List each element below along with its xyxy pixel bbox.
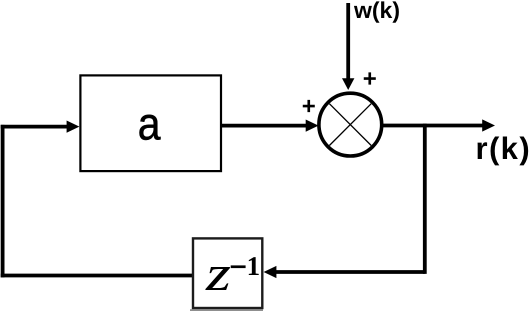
wire: bottom-left horizontal from z-1 output to left rail: [1, 274, 193, 278]
wire: block a output to summing junction: [221, 124, 307, 128]
svg-text:z: z: [205, 245, 231, 301]
svg-text:1: 1: [247, 251, 261, 281]
arrowhead into summing junction (top): [342, 78, 354, 90]
wire: w(k) input vertical: [346, 3, 350, 80]
block z^-1 (unit delay): [193, 238, 262, 308]
svg-text:+: +: [363, 66, 377, 93]
wire: left feedback vertical rail: [1, 125, 5, 278]
label superscript minus: [231, 265, 246, 268]
block a (gain): [80, 75, 221, 171]
arrowhead into summing junction (left): [306, 120, 319, 132]
svg-text:+: +: [302, 93, 316, 120]
wire: output line: [382, 124, 483, 128]
svg-text:w(k): w(k): [353, 0, 400, 23]
wire: bottom-right horizontal into z-1: [276, 270, 425, 274]
wire: output node vertical down: [423, 124, 427, 274]
arrowhead output r(k): [482, 119, 495, 131]
wire: top-left horizontal into block a: [1, 125, 68, 129]
arrowhead into z-1 block: [264, 266, 277, 278]
shadow under z-1 block: [190, 309, 263, 311]
summing junction circle: [319, 93, 382, 156]
summing junction X diagonal 2: [329, 104, 371, 146]
svg-text:r(k): r(k): [476, 131, 531, 166]
summing junction X diagonal 1: [329, 104, 371, 146]
arrowhead into block a: [67, 121, 80, 133]
svg-text:a: a: [138, 97, 161, 149]
